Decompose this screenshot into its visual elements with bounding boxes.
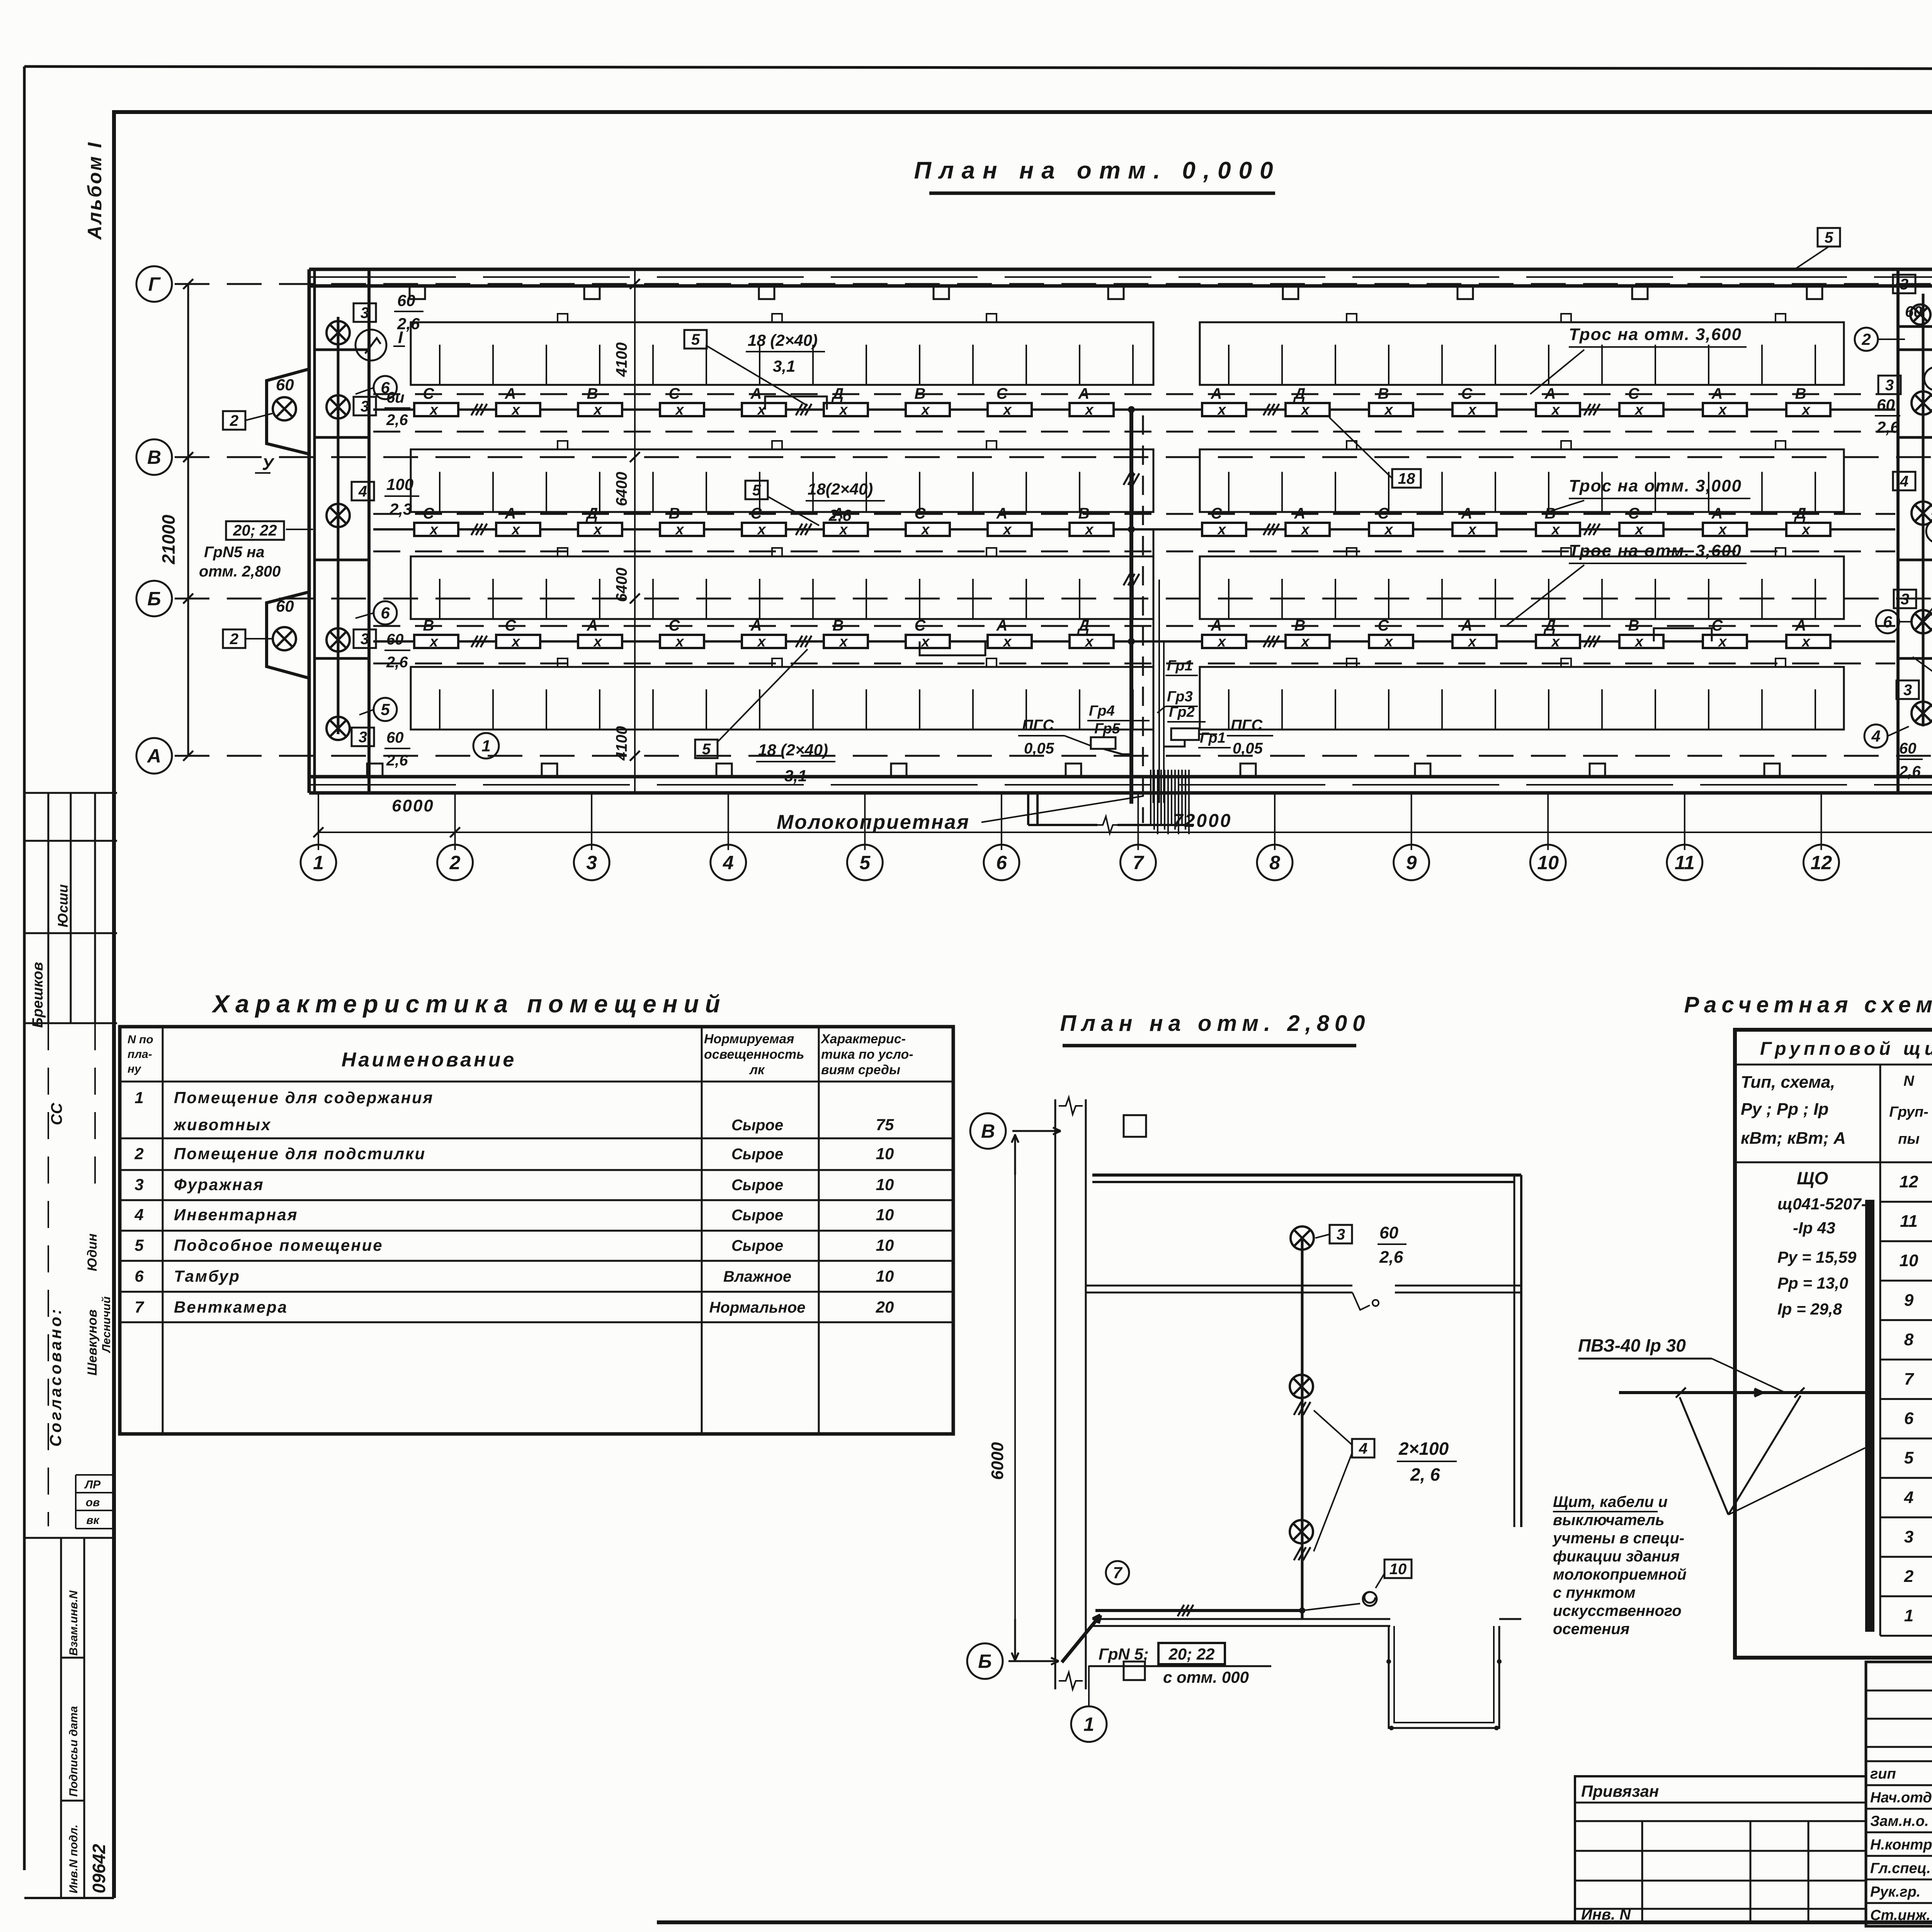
label 18 box upper bbox=[1392, 469, 1421, 488]
label 5 right top bbox=[1818, 228, 1840, 247]
svg-text:С: С bbox=[751, 505, 762, 522]
privyazan table bbox=[1575, 1776, 1866, 1922]
interior dimension line with 4100 6400 6400 4100 bbox=[634, 270, 636, 792]
svg-text:ГрN 5;: ГрN 5; bbox=[1099, 1645, 1149, 1663]
svg-text:x: x bbox=[1467, 402, 1477, 418]
svg-text:учтены в специ-: учтены в специ- bbox=[1552, 1530, 1684, 1547]
svg-text:x: x bbox=[1384, 522, 1393, 538]
cable dashed below row 1 bbox=[373, 431, 1895, 433]
outer border top bbox=[24, 66, 1932, 70]
svg-text:10: 10 bbox=[876, 1206, 894, 1224]
svg-text:5: 5 bbox=[1825, 229, 1833, 246]
svg-text:x: x bbox=[1084, 522, 1094, 538]
svg-text:Д: Д bbox=[1544, 617, 1556, 634]
svg-text:2,6: 2,6 bbox=[386, 412, 408, 429]
svg-text:2: 2 bbox=[1904, 1567, 1914, 1586]
svg-text:2,6: 2,6 bbox=[828, 506, 852, 524]
svg-text:x: x bbox=[1551, 634, 1560, 650]
svg-text:12: 12 bbox=[1900, 1172, 1918, 1191]
svg-text:СС: СС bbox=[48, 1102, 65, 1125]
svg-text:Шевкунов: Шевкунов bbox=[85, 1310, 100, 1376]
left rooms walls bbox=[313, 349, 369, 351]
svg-text:60: 60 bbox=[1899, 740, 1917, 757]
svg-text:С: С bbox=[1211, 505, 1223, 522]
svg-text:x: x bbox=[1718, 402, 1727, 418]
building top wall bbox=[309, 268, 1932, 271]
svg-text:В: В bbox=[915, 385, 926, 402]
svg-text:А: А bbox=[1544, 385, 1556, 402]
svg-text:18: 18 bbox=[1398, 470, 1415, 487]
svg-text:Ру = 15,59: Ру = 15,59 bbox=[1777, 1248, 1857, 1266]
svg-text:пы: пы bbox=[1898, 1131, 1920, 1147]
svg-text:2,6: 2,6 bbox=[1899, 763, 1921, 780]
svg-text:С: С bbox=[1628, 505, 1640, 522]
label 5 with 18(2x40)/3,1 bottom bbox=[695, 740, 718, 758]
svg-text:Щит, кабели и: Щит, кабели и bbox=[1553, 1493, 1668, 1510]
svg-text:осетения: осетения bbox=[1553, 1621, 1629, 1638]
grid circle G bbox=[136, 266, 172, 302]
characteristics table frame bbox=[120, 1027, 953, 1434]
label 5 circle bbox=[374, 698, 397, 721]
building top wall tabs bbox=[410, 286, 425, 299]
svg-text:21000: 21000 bbox=[158, 515, 179, 565]
svg-text:x: x bbox=[920, 402, 930, 418]
svg-text:ГрN5 на: ГрN5 на bbox=[204, 544, 265, 561]
svg-text:С: С bbox=[669, 617, 680, 634]
fixtures row 1 right group bbox=[1202, 403, 1246, 416]
building bottom wall tabs bbox=[367, 764, 383, 777]
svg-text:Гр2: Гр2 bbox=[1169, 704, 1195, 720]
wire jog row3 right bbox=[1654, 628, 1712, 641]
switch box right of drop bbox=[1171, 728, 1199, 740]
axis A dashed bbox=[175, 755, 1932, 757]
svg-text:0,05: 0,05 bbox=[1024, 740, 1054, 757]
svg-text:x: x bbox=[675, 402, 684, 418]
top right room lamp bbox=[1910, 304, 1930, 325]
svg-text:1: 1 bbox=[481, 737, 490, 755]
bottom plan riser cable bbox=[1301, 1238, 1304, 1619]
wire slashes row 1 bbox=[471, 404, 478, 415]
svg-text:5: 5 bbox=[381, 701, 390, 719]
svg-text:x: x bbox=[511, 402, 520, 418]
bottom plan thick floor cable bbox=[1095, 1609, 1302, 1612]
svg-text:2,3: 2,3 bbox=[389, 500, 412, 518]
building bottom wall bbox=[309, 775, 1932, 779]
svg-text:В: В bbox=[833, 617, 844, 634]
svg-text:5: 5 bbox=[752, 482, 761, 499]
room 7 circle bottom plan bbox=[1106, 1561, 1129, 1584]
svg-text:20; 22: 20; 22 bbox=[233, 522, 277, 539]
title block signature table bbox=[1866, 1662, 1932, 1926]
interior partition right bbox=[1896, 269, 1900, 793]
svg-text:5: 5 bbox=[859, 852, 871, 874]
svg-text:3: 3 bbox=[1904, 1527, 1913, 1546]
svg-text:В: В bbox=[147, 447, 161, 468]
svg-text:5: 5 bbox=[702, 741, 711, 758]
svg-text:А: А bbox=[1078, 385, 1090, 402]
svg-text:x: x bbox=[1467, 634, 1477, 650]
svg-text:Групповой щиток: Групповой щиток bbox=[1760, 1039, 1932, 1059]
svg-text:6: 6 bbox=[381, 604, 390, 622]
svg-text:выключатель: выключатель bbox=[1553, 1512, 1665, 1529]
svg-text:3: 3 bbox=[1900, 276, 1908, 293]
svg-text:Расчетная схема сети электроос: Расчетная схема сети электроосвещения 38… bbox=[1684, 992, 1932, 1017]
label 6 circle right bbox=[1924, 367, 1932, 390]
interior partition left bbox=[367, 269, 371, 793]
svg-text:с пунктом: с пунктом bbox=[1553, 1584, 1636, 1601]
svg-text:3,1: 3,1 bbox=[773, 357, 795, 375]
svg-text:4100: 4100 bbox=[613, 726, 630, 761]
svg-text:-Iр 43: -Iр 43 bbox=[1793, 1219, 1835, 1237]
svg-text:3: 3 bbox=[361, 398, 369, 415]
right end lamps bbox=[1912, 391, 1932, 415]
svg-text:Подсобное помещение: Подсобное помещение bbox=[174, 1236, 383, 1254]
svg-text:Трос на отм. 3,000: Трос на отм. 3,000 bbox=[1569, 476, 1742, 495]
svg-text:x: x bbox=[1718, 634, 1727, 650]
svg-text:пла-: пла- bbox=[128, 1048, 152, 1061]
svg-text:7: 7 bbox=[1133, 852, 1145, 874]
svg-text:А: А bbox=[505, 385, 516, 402]
svg-text:3: 3 bbox=[134, 1175, 143, 1194]
fixtures row 3 right group bbox=[1202, 635, 1246, 648]
label 3 box bottom plan bbox=[1330, 1225, 1352, 1243]
label 6 circle lower bbox=[374, 601, 397, 624]
svg-text:x: x bbox=[675, 634, 684, 650]
svg-text:С: С bbox=[997, 385, 1008, 402]
svg-text:x: x bbox=[1002, 402, 1012, 418]
svg-text:тика по усло-: тика по усло- bbox=[821, 1047, 913, 1062]
svg-text:В: В bbox=[1545, 505, 1556, 522]
svg-text:лк: лк bbox=[749, 1063, 765, 1077]
center slashes bbox=[1124, 473, 1130, 485]
svg-text:С: С bbox=[1712, 617, 1723, 634]
svg-text:В: В bbox=[1378, 385, 1389, 402]
svg-text:6и: 6и bbox=[386, 389, 405, 406]
svg-text:ну: ну bbox=[128, 1063, 141, 1075]
cable bundle hatch bbox=[1150, 770, 1151, 825]
svg-text:Нормальное: Нормальное bbox=[709, 1299, 805, 1316]
svg-text:План на отм. 0,000: План на отм. 0,000 bbox=[914, 157, 1281, 184]
column circles 1-13 bbox=[301, 845, 336, 880]
svg-text:60: 60 bbox=[386, 729, 404, 746]
arrow GrN5 bbox=[1062, 1615, 1100, 1662]
svg-text:освещенность: освещенность bbox=[704, 1047, 804, 1062]
svg-text:60: 60 bbox=[1905, 303, 1922, 320]
svg-text:x: x bbox=[593, 402, 602, 418]
svg-text:Наименование: Наименование bbox=[342, 1049, 517, 1071]
svg-text:А: А bbox=[1461, 617, 1473, 634]
svg-text:фикации здания: фикации здания bbox=[1553, 1548, 1680, 1565]
svg-text:6400: 6400 bbox=[613, 472, 630, 506]
svg-text:С: С bbox=[1461, 385, 1473, 402]
fixtures row 2 left group bbox=[414, 523, 458, 536]
svg-text:75: 75 bbox=[876, 1116, 894, 1134]
svg-text:В: В bbox=[587, 385, 598, 402]
svg-text:4: 4 bbox=[134, 1206, 143, 1224]
grid circle V bottom plan bbox=[970, 1113, 1006, 1149]
svg-text:Б: Б bbox=[147, 588, 161, 610]
grid circle B bottom plan bbox=[967, 1643, 1003, 1679]
svg-text:В: В bbox=[1795, 385, 1806, 402]
right rooms walls bbox=[1898, 325, 1932, 328]
svg-text:Согласовано:: Согласовано: bbox=[46, 1307, 65, 1447]
svg-text:7: 7 bbox=[134, 1298, 144, 1316]
svg-text:А: А bbox=[1461, 505, 1473, 522]
svg-text:А: А bbox=[1795, 617, 1806, 634]
switch box left of drop bbox=[1091, 737, 1116, 749]
svg-text:Д: Д bbox=[1293, 385, 1306, 402]
svg-text:С: С bbox=[423, 385, 435, 402]
svg-text:x: x bbox=[920, 522, 930, 538]
label 5 with 18(2x40)/2,6 middle bbox=[745, 481, 768, 499]
fixtures row 2 right group bbox=[1202, 523, 1246, 536]
svg-text:100: 100 bbox=[386, 475, 413, 493]
svg-text:2, 6: 2, 6 bbox=[1410, 1464, 1440, 1485]
left dimension line 21000 bbox=[187, 284, 189, 756]
svg-text:молокоприемной: молокоприемной bbox=[1553, 1566, 1687, 1583]
left protrusion lamp top bbox=[273, 397, 296, 420]
svg-text:8: 8 bbox=[1904, 1330, 1914, 1349]
lighting trunk line row 2 bbox=[373, 528, 1895, 531]
small square bottom bbox=[1124, 1662, 1145, 1680]
svg-text:отм. 2,800: отм. 2,800 bbox=[199, 563, 281, 580]
cable dashed below row 2 bbox=[373, 551, 1895, 553]
center cable drop thick bbox=[1129, 410, 1133, 804]
svg-text:x: x bbox=[757, 522, 766, 538]
svg-text:Инвентарная: Инвентарная bbox=[174, 1206, 298, 1224]
svg-text:Характерис-: Характерис- bbox=[820, 1032, 906, 1046]
svg-text:9: 9 bbox=[1904, 1291, 1914, 1310]
svg-text:3,1: 3,1 bbox=[784, 767, 807, 785]
bottom plan room walls bbox=[1092, 1173, 1521, 1177]
calc table busbar bbox=[1866, 1200, 1874, 1631]
svg-text:0,05: 0,05 bbox=[1233, 740, 1263, 757]
leader fan to shield note bbox=[1680, 1397, 1728, 1515]
label 3 box with 6u/2,6 bbox=[354, 397, 376, 415]
feed line PVZ bbox=[1619, 1391, 1866, 1394]
label 4 box bottom plan bbox=[1352, 1439, 1374, 1458]
svg-text:Д: Д bbox=[832, 385, 844, 402]
svg-text:x: x bbox=[1634, 634, 1644, 650]
lighting trunk line row 3 bbox=[373, 640, 1895, 643]
svg-text:x: x bbox=[511, 634, 520, 650]
svg-text:3: 3 bbox=[1337, 1226, 1345, 1243]
lighting trunk line row 1 bbox=[373, 408, 1895, 411]
svg-text:x: x bbox=[920, 634, 930, 650]
center dashed riser bbox=[1142, 415, 1144, 823]
svg-text:1: 1 bbox=[1904, 1606, 1913, 1625]
svg-text:Д: Д bbox=[1077, 617, 1090, 634]
label 3 box with 60/2,6 at G bbox=[354, 303, 376, 322]
svg-text:3: 3 bbox=[361, 631, 369, 648]
svg-text:x: x bbox=[1217, 402, 1226, 418]
svg-text:А: А bbox=[1211, 617, 1222, 634]
svg-text:5: 5 bbox=[1904, 1449, 1914, 1468]
svg-text:x: x bbox=[1300, 634, 1310, 650]
svg-text:Юсши: Юсши bbox=[55, 884, 71, 927]
svg-text:Сырое: Сырое bbox=[731, 1237, 783, 1254]
svg-text:С: С bbox=[1378, 505, 1389, 522]
bottom plan floor lines bbox=[1092, 1618, 1390, 1620]
svg-text:7: 7 bbox=[1113, 1564, 1122, 1582]
svg-text:x: x bbox=[675, 522, 684, 538]
svg-text:Гр4: Гр4 bbox=[1089, 703, 1115, 719]
svg-text:А: А bbox=[1294, 505, 1306, 522]
svg-text:3: 3 bbox=[1885, 377, 1894, 394]
svg-text:Гл.спец.: Гл.спец. bbox=[1870, 1861, 1931, 1877]
svg-text:А: А bbox=[996, 505, 1008, 522]
svg-text:2×100: 2×100 bbox=[1398, 1439, 1449, 1459]
svg-text:x: x bbox=[757, 634, 766, 650]
svg-text:10: 10 bbox=[1389, 1561, 1407, 1578]
svg-text:9: 9 bbox=[1406, 852, 1417, 874]
svg-text:x: x bbox=[1801, 522, 1811, 538]
outer border left bbox=[23, 66, 26, 1870]
svg-text:2: 2 bbox=[230, 631, 238, 648]
svg-text:x: x bbox=[1002, 634, 1012, 650]
svg-text:искусственного: искусственного bbox=[1553, 1602, 1682, 1619]
svg-text:5: 5 bbox=[134, 1236, 144, 1254]
svg-text:18(2×40): 18(2×40) bbox=[808, 480, 873, 498]
svg-text:Сырое: Сырое bbox=[731, 1117, 783, 1134]
svg-text:В: В bbox=[669, 505, 680, 522]
svg-text:кВт; кВт; А: кВт; кВт; А bbox=[1741, 1129, 1846, 1148]
axis G dashed bbox=[175, 283, 1932, 285]
stall rows bbox=[411, 322, 1153, 385]
svg-text:А: А bbox=[505, 505, 516, 522]
svg-text:ЩО: ЩО bbox=[1797, 1168, 1828, 1188]
label 3 box bottom bbox=[352, 728, 374, 746]
svg-text:11: 11 bbox=[1675, 852, 1695, 874]
svg-text:Инв.N подл.: Инв.N подл. bbox=[67, 1825, 80, 1893]
svg-text:7: 7 bbox=[1904, 1370, 1915, 1389]
svg-text:72000: 72000 bbox=[1173, 811, 1232, 831]
svg-text:x: x bbox=[1467, 522, 1477, 538]
label 6 circle right lower bbox=[1876, 610, 1899, 633]
svg-text:10: 10 bbox=[876, 1267, 894, 1285]
calc table outer frame bbox=[1735, 1030, 1932, 1658]
axis B dashed bbox=[175, 598, 1932, 600]
fixtures row 1 left group bbox=[414, 403, 458, 416]
svg-text:Трос на отм. 3,600: Трос на отм. 3,600 bbox=[1569, 541, 1742, 560]
svg-text:с отм. 000: с отм. 000 bbox=[1163, 1668, 1249, 1686]
label 20;22 GrN5 block bbox=[226, 521, 284, 540]
svg-text:Молокоприетная: Молокоприетная bbox=[777, 811, 970, 833]
svg-text:Д: Д bbox=[1794, 505, 1806, 522]
svg-text:4100: 4100 bbox=[613, 342, 630, 377]
svg-text:10: 10 bbox=[876, 1175, 894, 1194]
svg-text:Взам.инв.N: Взам.инв.N bbox=[67, 1590, 80, 1656]
svg-text:ПГС: ПГС bbox=[1022, 717, 1054, 734]
svg-text:С: С bbox=[915, 617, 926, 634]
svg-text:x: x bbox=[1217, 522, 1226, 538]
svg-text:60: 60 bbox=[276, 376, 294, 394]
svg-text:В: В bbox=[423, 617, 434, 634]
svg-text:x: x bbox=[1634, 402, 1644, 418]
svg-text:Инв. N: Инв. N bbox=[1581, 1906, 1631, 1923]
wire slashes row 2 bbox=[471, 524, 478, 535]
svg-text:Груп-: Груп- bbox=[1889, 1104, 1929, 1120]
svg-text:5: 5 bbox=[691, 331, 700, 348]
calc table header lines bbox=[1735, 1064, 1932, 1066]
svg-text:Влажное: Влажное bbox=[723, 1268, 791, 1285]
svg-text:Помещение для содержания: Помещение для содержания bbox=[174, 1088, 434, 1107]
svg-text:I: I bbox=[398, 328, 403, 347]
svg-text:Брешков: Брешков bbox=[30, 962, 46, 1028]
svg-text:6400: 6400 bbox=[613, 568, 630, 602]
label 3 box right G bbox=[1878, 376, 1901, 394]
svg-text:2,6: 2,6 bbox=[386, 752, 408, 769]
svg-text:1: 1 bbox=[134, 1088, 143, 1107]
svg-text:x: x bbox=[1002, 522, 1012, 538]
svg-text:09642: 09642 bbox=[89, 1844, 109, 1893]
grid circle B bbox=[136, 581, 172, 616]
label 4 circle bottom right bbox=[1864, 724, 1888, 748]
wire jog row1 bbox=[765, 396, 827, 410]
svg-text:10: 10 bbox=[1900, 1251, 1918, 1270]
svg-text:Зам.н.о.: Зам.н.о. bbox=[1870, 1813, 1929, 1830]
svg-text:11: 11 bbox=[1900, 1212, 1918, 1231]
left end vertical cable bbox=[337, 317, 340, 734]
svg-text:x: x bbox=[1384, 634, 1393, 650]
grid circle 1 bottom plan bbox=[1071, 1706, 1107, 1742]
svg-text:А: А bbox=[750, 617, 762, 634]
cable dashed below row 3 bbox=[373, 663, 1895, 665]
svg-text:20: 20 bbox=[876, 1298, 894, 1316]
svg-text:Сырое: Сырое bbox=[731, 1177, 783, 1194]
label 2 box bottom left bbox=[223, 629, 245, 648]
svg-text:x: x bbox=[1217, 634, 1226, 650]
svg-text:60: 60 bbox=[1877, 396, 1895, 414]
fixtures row 3 left group bbox=[414, 635, 458, 648]
label 4 box right with 100/2,3 bbox=[1893, 472, 1915, 490]
svg-text:x: x bbox=[838, 402, 848, 418]
svg-text:А: А bbox=[1711, 505, 1723, 522]
svg-text:4: 4 bbox=[723, 852, 734, 874]
label 3 circle right bbox=[1926, 520, 1932, 543]
svg-text:Гр1: Гр1 bbox=[1167, 658, 1193, 674]
label 5 with 18(2x40)/3,1 top bbox=[684, 330, 707, 349]
center drop thin risers bbox=[1153, 529, 1155, 803]
svg-text:В: В bbox=[1628, 617, 1639, 634]
left strip lower columns bbox=[60, 1538, 62, 1898]
svg-text:3: 3 bbox=[359, 729, 367, 746]
svg-text:Н.контр.: Н.контр. bbox=[1870, 1837, 1932, 1853]
svg-text:x: x bbox=[1634, 522, 1644, 538]
svg-text:2: 2 bbox=[449, 852, 461, 874]
label 2 circle top right bbox=[1855, 328, 1878, 351]
svg-text:2: 2 bbox=[230, 412, 238, 429]
svg-text:Гр5: Гр5 bbox=[1094, 721, 1121, 737]
svg-text:10: 10 bbox=[876, 1236, 894, 1254]
svg-text:Гр3: Гр3 bbox=[1167, 689, 1193, 705]
svg-text:x: x bbox=[593, 634, 602, 650]
svg-text:2,6: 2,6 bbox=[1876, 418, 1900, 436]
svg-text:N: N bbox=[1903, 1073, 1915, 1089]
svg-text:x: x bbox=[511, 522, 520, 538]
svg-text:У: У bbox=[262, 455, 275, 474]
svg-text:x: x bbox=[1084, 402, 1094, 418]
svg-text:3: 3 bbox=[1901, 591, 1909, 608]
svg-text:x: x bbox=[593, 522, 602, 538]
svg-text:В: В bbox=[1294, 617, 1306, 634]
bottom plan lamps bbox=[1291, 1226, 1314, 1250]
svg-text:А: А bbox=[750, 385, 762, 402]
svg-text:Тип, схема,: Тип, схема, bbox=[1741, 1073, 1835, 1092]
label 4 box with 100/2,3 bbox=[352, 482, 374, 500]
svg-text:x: x bbox=[429, 634, 439, 650]
svg-text:А: А bbox=[996, 617, 1008, 634]
